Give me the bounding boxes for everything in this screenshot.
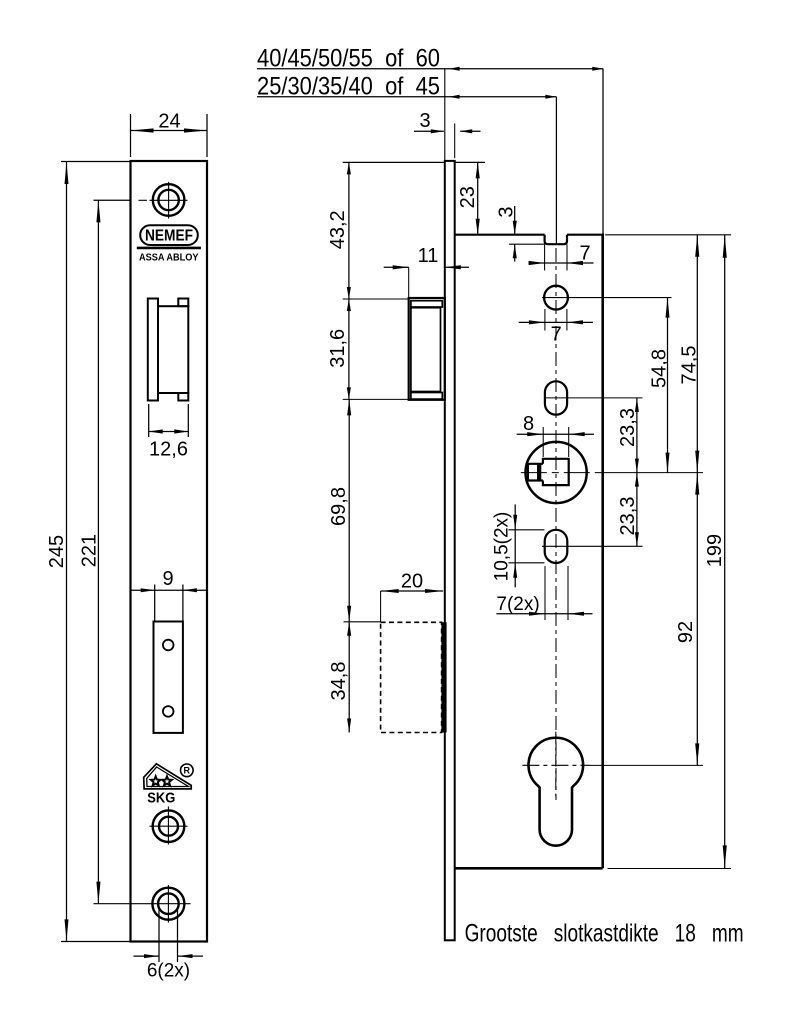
svg-text:20: 20	[401, 571, 423, 593]
svg-text:12,6: 12,6	[149, 439, 188, 461]
svg-text:92: 92	[675, 621, 697, 643]
svg-text:34,8: 34,8	[328, 662, 350, 701]
svg-text:9: 9	[162, 568, 173, 590]
svg-text:245: 245	[46, 535, 68, 568]
svg-text:7(2x): 7(2x)	[496, 594, 539, 615]
svg-text:54,8: 54,8	[649, 349, 671, 388]
svg-text:43,2: 43,2	[327, 210, 349, 249]
svg-text:R: R	[184, 766, 191, 776]
svg-text:6(2x): 6(2x)	[147, 961, 190, 982]
svg-text:23,3: 23,3	[617, 408, 639, 447]
svg-text:10,5(2x): 10,5(2x)	[492, 512, 513, 582]
svg-text:31,6: 31,6	[327, 329, 349, 368]
svg-text:199: 199	[704, 534, 726, 567]
svg-text:7: 7	[579, 243, 590, 265]
svg-text:23: 23	[457, 186, 479, 208]
svg-text:69,8: 69,8	[328, 487, 350, 526]
svg-text:11: 11	[418, 245, 439, 267]
svg-text:3: 3	[419, 110, 430, 132]
svg-text:Grootste slotkastdikte 18 mm: Grootste slotkastdikte 18 mm	[465, 920, 744, 948]
svg-text:8: 8	[523, 413, 534, 435]
svg-text:NEMEF: NEMEF	[145, 228, 193, 245]
svg-text:23,3: 23,3	[617, 497, 639, 536]
svg-text:SKG: SKG	[147, 790, 175, 807]
svg-text:74,5: 74,5	[679, 346, 701, 385]
svg-text:ASSA ABLOY: ASSA ABLOY	[139, 252, 199, 264]
svg-text:221: 221	[79, 534, 101, 567]
svg-text:24: 24	[158, 111, 180, 133]
